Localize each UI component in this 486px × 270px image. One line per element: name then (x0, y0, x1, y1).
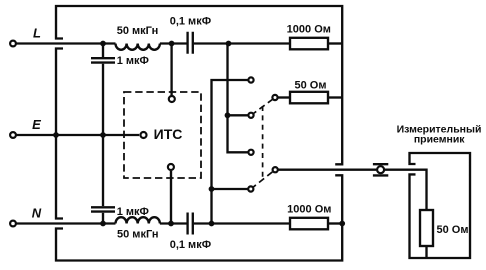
svg-text:N: N (32, 206, 42, 221)
svg-text:ИТС: ИТС (154, 126, 183, 142)
svg-text:1000 Ом: 1000 Ом (287, 24, 331, 36)
svg-text:0,1 мкФ: 0,1 мкФ (170, 239, 211, 251)
svg-text:50 мкГн: 50 мкГн (117, 25, 159, 37)
svg-text:приемник: приемник (414, 133, 465, 145)
svg-text:1 мкФ: 1 мкФ (117, 206, 149, 218)
svg-text:L: L (33, 25, 41, 40)
svg-text:50 мкГн: 50 мкГн (117, 229, 159, 241)
svg-text:1000 Ом: 1000 Ом (287, 204, 331, 216)
svg-text:50 Ом: 50 Ом (295, 79, 327, 91)
svg-text:50 Ом: 50 Ом (437, 224, 469, 236)
svg-text:E: E (32, 117, 41, 132)
svg-text:1 мкФ: 1 мкФ (117, 55, 149, 67)
svg-text:0,1 мкФ: 0,1 мкФ (170, 15, 211, 27)
